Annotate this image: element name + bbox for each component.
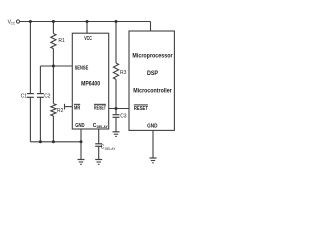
svg-text:DELAY: DELAY — [105, 147, 117, 151]
svg-text:RESET: RESET — [134, 106, 148, 112]
svg-text:Microprocessor: Microprocessor — [132, 53, 173, 60]
svg-text:VCC: VCC — [84, 36, 92, 42]
svg-text:R3: R3 — [120, 70, 127, 76]
svg-text:C1: C1 — [21, 94, 28, 100]
svg-text:DELAY: DELAY — [97, 125, 109, 129]
svg-text:RESET: RESET — [94, 105, 106, 111]
svg-text:R1: R1 — [58, 38, 65, 44]
svg-text:C3: C3 — [120, 113, 127, 119]
svg-text:R2: R2 — [57, 108, 64, 114]
svg-text:GND: GND — [147, 124, 158, 130]
svg-text:CC: CC — [11, 22, 16, 26]
svg-text:MP6400: MP6400 — [81, 81, 101, 87]
svg-text:SENSE: SENSE — [75, 65, 89, 71]
svg-text:MR: MR — [74, 105, 81, 111]
svg-text:DSP: DSP — [147, 70, 158, 77]
svg-text:GND: GND — [75, 123, 85, 129]
svg-text:C2: C2 — [44, 94, 51, 100]
svg-text:Microcontroller: Microcontroller — [133, 87, 172, 94]
